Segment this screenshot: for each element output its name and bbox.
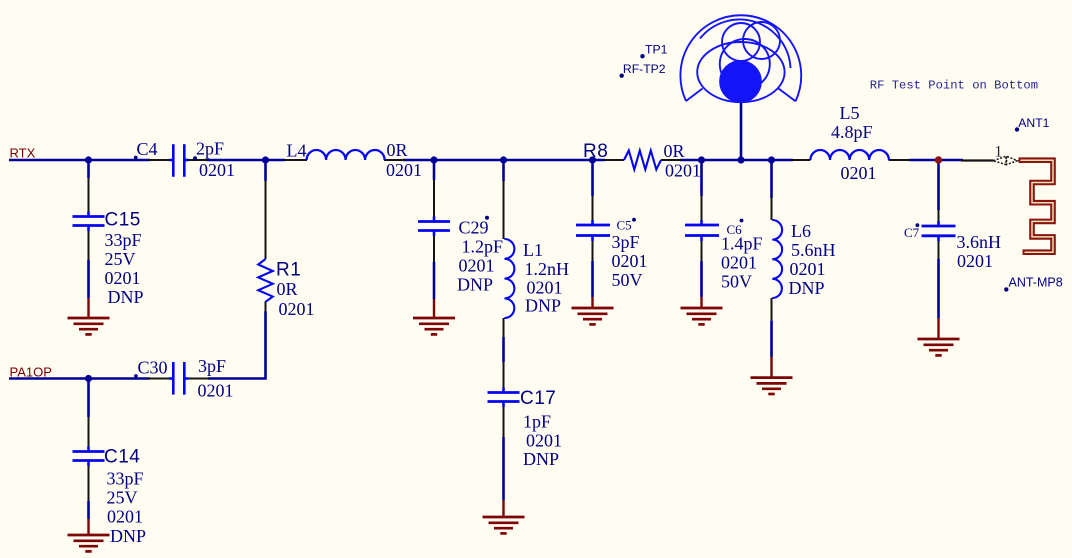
parameter dot ANT1 [1015, 127, 1019, 131]
resistor R8 [624, 151, 661, 170]
svg-text:PA1OP: PA1OP [10, 365, 52, 380]
parameter dot C6 [740, 219, 744, 223]
svg-text:0R: 0R [387, 140, 408, 160]
wire RTX rail left [9, 159, 150, 162]
capacitor C29 [418, 222, 450, 231]
svg-text:DNP: DNP [108, 287, 144, 307]
svg-text:0201: 0201 [105, 268, 141, 288]
svg-text:ANT-MP8: ANT-MP8 [1009, 276, 1063, 290]
svg-text:0201: 0201 [526, 430, 562, 450]
svg-text:0201: 0201 [459, 256, 495, 276]
svg-text:0201: 0201 [198, 381, 234, 401]
wire C30 to R1 corner [208, 311, 266, 379]
node junction PA1OP-C30-C14 [85, 375, 92, 382]
svg-text:DNP: DNP [523, 449, 559, 469]
node junction R8-C5 [589, 156, 596, 163]
ground under C5 [572, 308, 614, 324]
parameter dot C7 [916, 223, 920, 227]
svg-text:0201: 0201 [790, 259, 826, 279]
svg-text:0201: 0201 [721, 253, 757, 273]
svg-text:0201: 0201 [279, 299, 315, 319]
pin C4 right [186, 159, 208, 161]
ground under C17 [483, 517, 525, 533]
svg-text:0201: 0201 [612, 251, 648, 271]
pin stub C7 [937, 221, 940, 225]
ground under C29 [413, 318, 455, 334]
svg-text:50V: 50V [721, 272, 752, 292]
capacitor C30 [173, 362, 184, 395]
pin stub C15 [87, 212, 90, 216]
antenna ANT1 meander [1019, 160, 1054, 252]
svg-text:DNP: DNP [457, 275, 493, 295]
pin R8 left [604, 159, 624, 161]
wire PA1OP rail [9, 377, 150, 380]
parameter dot 2pF [193, 156, 197, 160]
svg-text:L5: L5 [840, 103, 860, 123]
svg-text:C5: C5 [617, 218, 632, 233]
pin marker bowtie at ANT1 pin 1 [993, 156, 1017, 164]
svg-text:C15: C15 [105, 210, 141, 231]
parameter dot ANT-MP8 [1004, 287, 1008, 291]
wire L1 C17 branch vertical [502, 160, 505, 181]
parameter dot C4 [134, 156, 138, 160]
svg-text:33pF: 33pF [105, 230, 142, 250]
capacitor C14 [73, 452, 105, 461]
svg-text:C7: C7 [904, 225, 920, 240]
pin stub C6 [700, 220, 703, 224]
pin R8 right [661, 159, 681, 161]
svg-text:1.2pF: 1.2pF [462, 236, 504, 256]
ground under C6 [681, 308, 723, 324]
svg-text:DNP: DNP [789, 278, 825, 298]
ground under C15 [68, 318, 110, 334]
pin stub C5 [591, 220, 594, 224]
inductor L5 [810, 150, 889, 160]
pin stub C4 [169, 159, 172, 162]
capacitor C17 [488, 393, 520, 402]
svg-text:1: 1 [995, 144, 1003, 161]
node junction RTX-C15-C4 [85, 156, 92, 163]
node junction TP1 [737, 156, 744, 163]
wire C7 branch vertical [937, 160, 940, 210]
capacitor C15 [73, 217, 105, 226]
parameter dot RF-TP2 [620, 74, 624, 78]
wire L4 to R8 [403, 159, 605, 162]
node junction C4-L4-R1 [262, 156, 269, 163]
capacitor C5 [576, 225, 610, 236]
svg-text:3pF: 3pF [612, 232, 640, 252]
parameter dot C29 [485, 216, 489, 220]
wire C6 branch vertical [700, 160, 703, 196]
pin C30 right [186, 378, 210, 380]
svg-text:L6: L6 [791, 221, 811, 241]
svg-text:C17: C17 [520, 388, 556, 409]
svg-text:3.6nH: 3.6nH [957, 232, 1002, 252]
svg-text:25V: 25V [105, 249, 136, 269]
svg-text:3pF: 3pF [198, 356, 226, 376]
svg-text:RTX: RTX [10, 146, 36, 161]
wire R8 to L5 [680, 159, 793, 162]
pin C4 left [148, 159, 173, 161]
node junction L6 [768, 156, 775, 163]
inductor L4 [307, 150, 385, 160]
svg-text:33pF: 33pF [107, 469, 144, 489]
wire L6 branch vertical [770, 160, 773, 198]
svg-text:C29: C29 [459, 217, 489, 237]
resistor R1 [258, 259, 273, 302]
pin L4 left [284, 159, 307, 161]
svg-text:0201: 0201 [107, 506, 143, 526]
inductor L1 [505, 239, 515, 318]
svg-text:DNP: DNP [110, 526, 146, 546]
svg-text:0201: 0201 [386, 160, 422, 180]
ground under L6 [751, 378, 793, 394]
svg-text:RF-TP2: RF-TP2 [623, 62, 666, 76]
svg-text:L1: L1 [523, 240, 543, 260]
parameter dot C30 [134, 374, 138, 378]
svg-text:R8: R8 [583, 141, 608, 162]
svg-text:ANT1: ANT1 [1018, 116, 1049, 130]
node junction L1 [500, 156, 507, 163]
svg-text:1.2nH: 1.2nH [525, 259, 570, 279]
node RTX junction vertical to C15 [87, 160, 90, 178]
svg-text:C14: C14 [104, 447, 140, 468]
node junction ANT-C7 (dark red) [935, 156, 942, 163]
pin C30 left [147, 378, 172, 380]
parameter dot C5 [632, 218, 636, 222]
svg-text:L4: L4 [287, 141, 307, 161]
svg-text:0R: 0R [277, 279, 298, 299]
capacitor C4 [173, 144, 184, 177]
svg-text:50V: 50V [612, 270, 643, 290]
svg-text:RF Test Point on Bottom: RF Test Point on Bottom [870, 78, 1038, 92]
pin stub C29 [433, 217, 436, 221]
pin L5 right [889, 159, 911, 161]
test point TP1 symbol [680, 15, 801, 102]
svg-text:0201: 0201 [665, 160, 701, 180]
svg-text:2pF: 2pF [196, 139, 224, 159]
svg-text:C30: C30 [138, 358, 168, 378]
svg-text:1pF: 1pF [523, 412, 551, 432]
parameter dot TP1 [640, 54, 644, 58]
wire R1 branch vertical [264, 160, 267, 181]
svg-text:0201: 0201 [199, 160, 235, 180]
inductor L6 [772, 220, 782, 298]
svg-text:0201: 0201 [527, 277, 563, 297]
pin L4 right [384, 159, 405, 161]
capacitor C6 [685, 225, 719, 236]
wire C4 to L4 [206, 159, 285, 162]
svg-text:0R: 0R [664, 141, 685, 161]
wire C14 branch vertical [87, 379, 90, 418]
ground under C14 [68, 535, 110, 551]
wire L5 to antenna [909, 159, 963, 162]
svg-text:R1: R1 [276, 260, 301, 281]
svg-text:5.6nH: 5.6nH [791, 240, 836, 260]
capacitor C7 [922, 226, 956, 236]
svg-text:TP1: TP1 [645, 43, 668, 57]
svg-text:1.4pF: 1.4pF [721, 234, 763, 254]
pin stub C30 [169, 377, 172, 380]
node junction C6 [698, 156, 705, 163]
wire TP1 vertical [740, 101, 743, 160]
pin ANT1 pin1 [961, 159, 994, 161]
pin stub C17 [502, 388, 505, 392]
node junction C29 [430, 156, 437, 163]
svg-text:C4: C4 [137, 139, 158, 159]
wire C5 branch vertical [591, 160, 594, 196]
svg-text:0201: 0201 [841, 163, 877, 183]
svg-text:0201: 0201 [957, 251, 993, 271]
wire C29 branch vertical [433, 160, 436, 180]
svg-text:DNP: DNP [525, 296, 561, 316]
pin L5 left [792, 159, 810, 161]
ground under C7 [918, 339, 960, 355]
svg-text:4.8pF: 4.8pF [831, 122, 873, 142]
svg-text:25V: 25V [107, 487, 138, 507]
pin stub C14 [87, 447, 90, 451]
